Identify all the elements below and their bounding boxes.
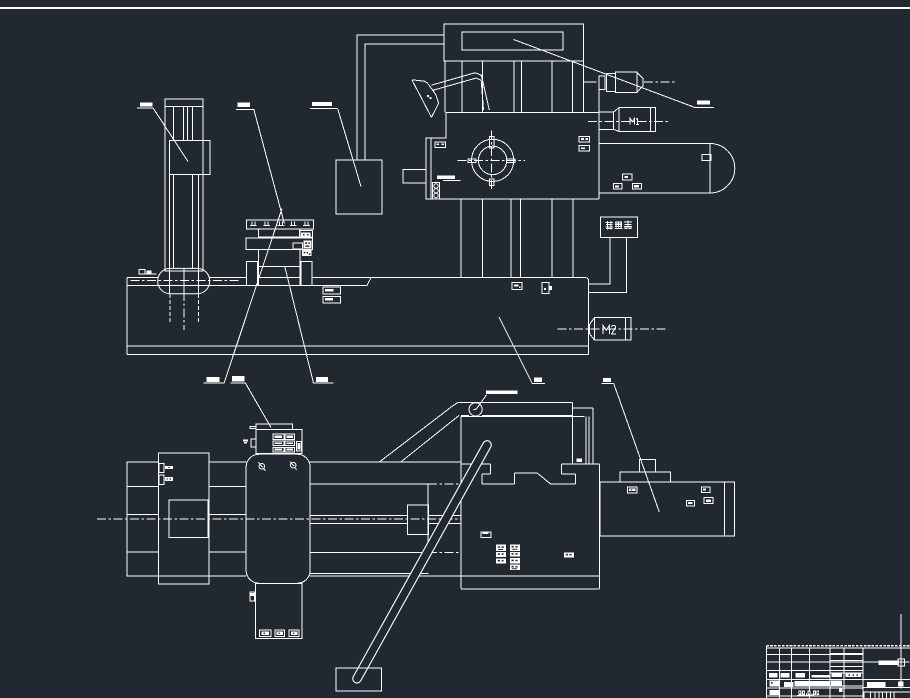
jig fixture body xyxy=(461,417,600,589)
connecting guide lines xyxy=(209,462,246,576)
label L10 with leader to power unit xyxy=(499,317,545,383)
tabs with markers on middle block xyxy=(159,463,173,484)
small label at bed top-left xyxy=(139,270,157,274)
label L3 xyxy=(310,102,361,187)
bottom handle plate xyxy=(336,668,382,691)
bracket with rollers xyxy=(433,183,440,199)
label L8 with leader to pivot xyxy=(476,390,518,409)
label L2 xyxy=(236,103,284,224)
jig interior labels xyxy=(481,532,574,570)
title block grid xyxy=(766,646,910,698)
tool holder block xyxy=(407,505,428,535)
label box on head left xyxy=(435,142,446,147)
spindle head box xyxy=(426,76,600,199)
spindle circle with keys xyxy=(457,130,525,190)
leader to label L4 xyxy=(514,40,715,108)
label L7 xyxy=(285,267,334,384)
junction box at pipe bottom xyxy=(336,160,382,214)
label L6 xyxy=(230,376,271,427)
top border line xyxy=(0,7,910,9)
title block filled cells xyxy=(769,673,904,695)
terminal box on saddle xyxy=(243,424,302,454)
columns below head xyxy=(461,199,573,277)
left vertical column (guideway) xyxy=(165,99,203,293)
digital readout box 数显表 xyxy=(600,217,637,238)
title block bottom-right tick cells xyxy=(864,692,894,698)
worktable stack: top plate with screws xyxy=(246,220,313,229)
label L5 xyxy=(203,209,282,384)
lower view centerline xyxy=(97,518,461,520)
datum vertical line xyxy=(900,614,902,689)
power unit outline right of saddle xyxy=(127,462,461,576)
stack feet xyxy=(246,261,312,285)
label L9 with leader to support xyxy=(602,378,660,512)
left end block xyxy=(127,462,158,576)
dimension line with bar xyxy=(853,659,909,666)
drill spindle shaft xyxy=(310,515,461,523)
shaft protruding left of head xyxy=(403,169,426,183)
two small labels in bed xyxy=(512,283,552,294)
diagonal brace arm xyxy=(379,402,461,462)
bolt symbols on saddle xyxy=(258,461,296,470)
stack layer2 xyxy=(259,229,313,237)
columns above head xyxy=(445,61,583,112)
two labels at bed right xyxy=(323,287,341,303)
main motor cylinder xyxy=(600,144,735,194)
bed (base tank) xyxy=(127,277,589,354)
stack middle column xyxy=(259,250,300,286)
support box right of jig xyxy=(600,459,734,535)
date text xyxy=(797,690,819,695)
cable duct pipe from control box xyxy=(357,35,444,160)
crank rod with rounded ends xyxy=(357,445,487,679)
workpiece step profile in jig xyxy=(461,464,600,484)
control box (top electrical cabinet) xyxy=(444,24,584,61)
stack layer3 (saddle plate) xyxy=(246,238,312,256)
motor M2 xyxy=(558,318,666,340)
jig top plate with pivot xyxy=(461,402,573,416)
clamp arm and tool xyxy=(412,73,489,118)
slide box on column xyxy=(170,141,211,175)
column base oval flange xyxy=(131,268,239,330)
guide tubes on jig top xyxy=(573,402,593,464)
wires from readout to machine xyxy=(589,238,627,293)
saddle (rounded block) xyxy=(246,454,310,583)
drawing sheet dashed border xyxy=(766,645,910,647)
middle block xyxy=(127,453,209,584)
motor M1 xyxy=(588,108,668,132)
workpiece chamfer xyxy=(537,473,551,484)
bottom attachment box of saddle xyxy=(250,583,302,638)
label L1 xyxy=(137,103,188,162)
motor M0 (top drive) xyxy=(584,72,675,92)
section bar mark xyxy=(437,175,461,180)
labels on head right edge xyxy=(579,136,589,151)
